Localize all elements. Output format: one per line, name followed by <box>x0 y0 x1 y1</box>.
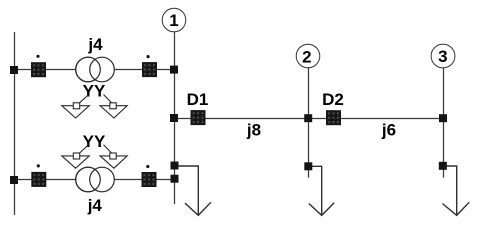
svg-text:j6: j6 <box>381 121 396 140</box>
svg-text:j4: j4 <box>87 196 103 215</box>
svg-text:1: 1 <box>169 11 178 30</box>
svg-text:j4: j4 <box>87 35 103 54</box>
svg-text:2: 2 <box>302 47 311 66</box>
svg-text:j8: j8 <box>246 121 261 140</box>
svg-text:D2: D2 <box>322 90 344 109</box>
svg-text:3: 3 <box>438 47 447 66</box>
svg-text:D1: D1 <box>187 90 209 109</box>
